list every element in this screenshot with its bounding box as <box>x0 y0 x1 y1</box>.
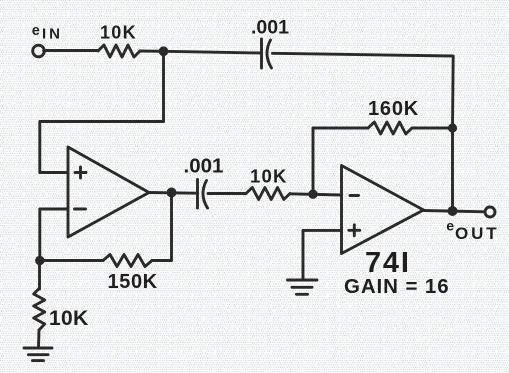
svg-text:10K: 10K <box>49 307 88 330</box>
svg-text:GAIN = 16: GAIN = 16 <box>344 275 450 298</box>
node junction bottom left <box>35 256 44 265</box>
wire U1 - input feedback <box>40 209 68 261</box>
node junction at R1 output <box>159 46 169 56</box>
svg-text:.001: .001 <box>184 155 224 178</box>
ground at U2 + input <box>288 280 318 294</box>
svg-text:e: e <box>446 218 454 234</box>
wire U2 + input to ground <box>303 230 342 279</box>
resistor R3 10K <box>34 288 45 330</box>
label U2 741 <box>365 247 411 279</box>
resistor R2 10K <box>246 188 290 200</box>
wire R1 to C1 <box>140 51 262 53</box>
svg-text:10K: 10K <box>250 166 288 187</box>
svg-text:.001: .001 <box>251 17 289 39</box>
node junction at right rail and R4 <box>448 123 457 132</box>
svg-text:OUT: OUT <box>455 224 500 243</box>
label e_OUT <box>446 218 499 244</box>
wire R2 to U2 - input <box>290 194 342 195</box>
op-amp U2 <box>342 166 424 254</box>
svg-text:IN: IN <box>42 26 63 43</box>
label R4 value 160K <box>368 98 419 120</box>
wire junction down to R3 <box>38 261 41 290</box>
wire junction up to R4 <box>313 128 368 194</box>
wire U1 output to C2 <box>149 191 196 195</box>
resistor R1 10K <box>98 45 140 57</box>
node junction at U1 output <box>167 188 177 198</box>
wire junction down to U1 + input <box>40 51 164 172</box>
terminal e_OUT <box>485 207 495 217</box>
node junction at U2 output <box>448 206 458 216</box>
wire R4 to right rail <box>412 127 453 130</box>
resistor R5 150K <box>103 255 152 267</box>
wire U2 output to terminal <box>424 211 486 212</box>
resistor R4 160K <box>368 122 412 134</box>
capacitor C1 .001 <box>262 39 272 68</box>
wire e_IN to R1 <box>44 49 98 52</box>
label R5 value 150K <box>108 271 158 293</box>
label GAIN = 16 <box>344 275 450 298</box>
wire R3 to ground <box>37 330 40 347</box>
svg-text:160K: 160K <box>368 98 419 120</box>
capacitor C2 .001 <box>198 180 208 209</box>
label C1 value .001 <box>251 17 289 39</box>
svg-text:e: e <box>32 23 40 39</box>
label C2 value .001 <box>184 155 224 178</box>
svg-text:150K: 150K <box>108 271 158 293</box>
ground at R3 <box>24 348 52 361</box>
wire R5 to U1 output <box>152 193 172 261</box>
wire C1 to right rail <box>273 53 454 211</box>
wire junction to R5 <box>40 259 103 262</box>
op-amp U1 <box>68 147 149 237</box>
label e_IN <box>32 23 63 43</box>
label R2 value 10K <box>250 166 288 187</box>
node junction at U2 - input <box>308 190 317 199</box>
svg-text:10K: 10K <box>100 23 137 43</box>
wire C2 to R2 <box>208 192 246 195</box>
label R3 value 10K <box>49 307 88 330</box>
label R1 value 10K <box>100 23 137 43</box>
terminal e_IN <box>33 45 45 57</box>
